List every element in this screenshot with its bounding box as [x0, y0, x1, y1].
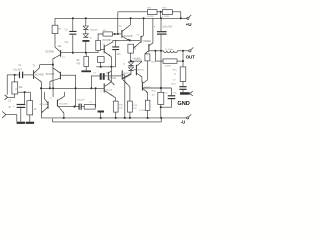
wire T2b emitter drop: [49, 82, 51, 89]
resistor R16: [163, 59, 177, 63]
transistor T1: [33, 65, 42, 83]
node T9 bus base node: [75, 87, 77, 89]
svg-text:BC556B: BC556B: [124, 36, 133, 38]
ground mid: [98, 111, 105, 118]
label 2,2/5W: [139, 110, 146, 112]
capacitor C9: [179, 86, 186, 90]
resistor R17z: [180, 67, 186, 82]
label R3 value: [57, 29, 62, 48]
label C9 value: [171, 84, 177, 86]
node ground rail R15b: [147, 117, 149, 119]
svg-text:BC546B: BC546B: [59, 104, 68, 106]
svg-text:BD911: BD911: [137, 69, 144, 71]
label T3 type: [102, 40, 111, 42]
label R13 value: [119, 104, 124, 109]
label In: [9, 105, 12, 109]
wire diode chain bottom: [85, 42, 87, 53]
node out right: [182, 50, 184, 52]
wire R17z to C9: [182, 81, 184, 86]
label T9b type: [143, 87, 151, 89]
svg-text:100µ 63V: 100µ 63V: [162, 27, 172, 29]
label -U: [181, 120, 185, 125]
inductor L1: [163, 51, 177, 53]
wire C6 bottom: [115, 50, 117, 67]
capacitor C4: [76, 104, 82, 110]
svg-text:GND: GND: [177, 101, 189, 107]
transistor T9: [104, 82, 116, 101]
node T9 bus T1e: [40, 87, 42, 89]
wire R10 bottom: [130, 53, 132, 61]
label R16 value: [164, 66, 171, 68]
label C1: [18, 64, 22, 67]
svg-text:1N4148: 1N4148: [90, 30, 98, 32]
transistor T8: [122, 70, 131, 101]
node ground rail mid: [100, 117, 102, 119]
svg-text:L1 10µH: L1 10µH: [165, 49, 174, 51]
transistor T2d: [57, 92, 65, 118]
wire R16 left: [155, 51, 163, 61]
wire T7 base: [134, 69, 136, 71]
node R10 diodes: [130, 60, 132, 62]
node rail x143.6: [143, 17, 145, 19]
wire input node to R1 bottom: [8, 92, 18, 97]
label T9 type: [105, 89, 112, 91]
diode D2b bar: [82, 40, 89, 42]
wire T2b base: [61, 74, 76, 76]
label D1 1N4148: [90, 30, 98, 32]
node base bus C3: [72, 52, 74, 54]
label T8 type: [123, 73, 130, 75]
label C2 plus: [13, 104, 15, 108]
label R6: [103, 30, 107, 32]
label T1 type: [35, 75, 44, 77]
label C5 value: [106, 72, 110, 74]
wire T9b base bus: [143, 87, 172, 89]
label D2 4x: [90, 38, 93, 40]
label T5 type: [142, 40, 150, 42]
wire zobel vertical: [182, 51, 184, 67]
wire R14 bottom: [160, 104, 162, 118]
wire out left: [150, 50, 164, 52]
svg-text:BD140: BD140: [109, 78, 117, 80]
label OUT: [186, 54, 196, 59]
node VAS bus: [129, 39, 131, 41]
resistor R13: [113, 101, 118, 118]
label C3 value: [65, 42, 70, 44]
label T2c type: [40, 104, 49, 106]
label GND: [177, 101, 189, 107]
label bias 2x2,2W: [132, 58, 140, 60]
label T3: [102, 44, 105, 46]
svg-text:2x2,2W: 2x2,2W: [132, 58, 140, 60]
wire VAS bus: [113, 39, 140, 41]
terminal -U: [187, 114, 192, 119]
wire C5 left: [91, 76, 99, 88]
wire T9 base bus: [41, 87, 104, 89]
label T1: [33, 64, 36, 67]
svg-text:0,1/5W: 0,1/5W: [147, 16, 155, 18]
svg-text:100µ/4V: 100µ/4V: [77, 100, 86, 102]
resistor R9: [96, 40, 101, 50]
wire D3-D4: [130, 66, 132, 67]
wire cascode vertical: [52, 58, 54, 97]
transistor T3: [104, 40, 113, 57]
label R14b value: [133, 105, 138, 110]
terminal OUT: [183, 47, 193, 52]
wire bias to T7: [131, 60, 142, 62]
wire +U top rail: [55, 17, 187, 19]
label C6: [116, 41, 120, 43]
label R2 value: [34, 108, 37, 111]
transistor T4: [121, 18, 130, 40]
label R8: [76, 60, 80, 62]
wire R11h bottom: [100, 62, 102, 67]
resistor R12: [145, 54, 150, 61]
node T2d base: [73, 106, 75, 108]
label T2d type: [59, 104, 68, 106]
label R18 value 0,1/5W: [162, 16, 170, 18]
resistor R15b: [145, 100, 150, 118]
svg-text:BC546B: BC546B: [45, 51, 54, 53]
terminal GND bar: [180, 91, 193, 96]
wire C5 to T6: [105, 75, 108, 77]
node ground rail T8: [124, 117, 126, 119]
svg-text:2,2/5W: 2,2/5W: [139, 110, 146, 112]
wire diode chain top: [85, 18, 87, 26]
capacitor C1: [19, 72, 33, 79]
wire emitter bus: [18, 91, 31, 93]
label C9: [173, 79, 177, 81]
transistor T2a: [53, 47, 61, 59]
capacitor C8: [161, 88, 176, 107]
node rail x161: [160, 17, 162, 19]
resistor R1: [12, 75, 18, 94]
label T4 type: [124, 36, 133, 38]
node R14 C8: [160, 106, 162, 108]
capacitor C6: [112, 46, 119, 50]
wire between emitter resistors: [157, 11, 162, 13]
label T6 type: [109, 78, 117, 80]
wire T3 base: [100, 48, 105, 50]
node rail x130.6: [130, 17, 132, 19]
wire vertical bus left drop: [117, 12, 119, 34]
label T2b type: [46, 74, 55, 76]
label T5: [137, 35, 140, 37]
terminal +U: [183, 15, 191, 20]
node rail C3: [72, 17, 74, 19]
node ground rail R14b: [129, 117, 131, 119]
capacitor C5: [100, 73, 105, 80]
label R7 value: [89, 102, 92, 104]
label R17z: [173, 70, 178, 72]
capacitor C10: [157, 18, 167, 92]
wire R9 bottom: [97, 51, 99, 53]
svg-text:10µ 63V: 10µ 63V: [13, 69, 22, 71]
label R17 value 0,1/5W: [147, 16, 155, 18]
node between R17 R18: [160, 11, 162, 19]
resistor R11h: [97, 57, 104, 63]
wire R8 bottom: [85, 67, 87, 71]
wire T5 collector: [143, 18, 145, 35]
label C8 value: [173, 92, 177, 94]
label Fb: [15, 89, 18, 91]
node mid bus T3e: [110, 66, 112, 68]
capacitor C3: [69, 18, 76, 52]
label T9: [100, 91, 103, 93]
wire input ground: [6, 115, 17, 122]
wire T8 base drop: [121, 75, 125, 118]
node base bus diodes: [85, 52, 87, 54]
label T7 type: [137, 69, 144, 71]
label +U: [186, 22, 193, 27]
wire L1 to out node: [177, 50, 183, 52]
node out top: [160, 50, 162, 52]
label C5: [93, 72, 97, 74]
svg-text:10/5W: 10/5W: [164, 66, 171, 68]
node T9 bus cascode: [52, 87, 54, 89]
wire T1 collector to cascode node: [40, 64, 53, 66]
node ground rail end: [160, 117, 162, 119]
svg-text:OUT: OUT: [186, 54, 196, 59]
wire T2a base bus: [61, 52, 98, 54]
wire mid bus: [96, 66, 115, 68]
wire R6 to T4: [112, 33, 118, 35]
label T4: [119, 26, 122, 28]
wire -U rail: [53, 118, 162, 122]
node T9 bus T2be: [49, 87, 51, 89]
transistor T10: [145, 18, 153, 54]
node base bus x160.8: [160, 87, 162, 89]
label T10 type: [145, 41, 152, 43]
capacitor C2: [17, 92, 26, 122]
label L1: [165, 49, 174, 51]
label C2: [8, 100, 12, 103]
resistor R6: [103, 32, 112, 36]
wire R3 to T2a collector: [54, 34, 56, 48]
wire R16 right: [177, 60, 183, 62]
svg-text:1k2: 1k2: [57, 45, 62, 48]
label D3 2x: [123, 64, 126, 66]
wire input top: [7, 74, 19, 76]
label C8: [165, 93, 169, 95]
label C3: [65, 30, 69, 32]
wire ground rail: [41, 117, 187, 119]
label R17z value: [174, 74, 177, 76]
label D3 type: [134, 59, 142, 61]
diode D2: [83, 34, 88, 38]
diode D4: [128, 67, 133, 71]
wire R9 top: [98, 34, 103, 40]
resistor R10: [128, 44, 133, 53]
wire C9 to GND: [182, 90, 184, 92]
wire T2d base: [58, 106, 76, 108]
label C10 plus: [154, 25, 156, 29]
label C4 value: [77, 100, 86, 102]
node zobel top: [182, 60, 184, 62]
transistor T7: [136, 61, 142, 82]
label R18: [162, 8, 167, 10]
wire base node vertical: [75, 75, 77, 107]
label R10 value: [134, 48, 137, 50]
label R17: [147, 8, 152, 10]
wire R7 to bus: [94, 88, 96, 107]
node R6 out: [114, 33, 116, 35]
svg-text:+U: +U: [186, 22, 193, 27]
node bus drop: [117, 33, 119, 35]
transistor T9b output: [142, 80, 148, 101]
wire C6 chain: [115, 40, 117, 46]
svg-text:BD911: BD911: [145, 41, 152, 43]
svg-text:BD140: BD140: [105, 89, 112, 91]
svg-text:BC546B: BC546B: [35, 75, 44, 77]
ground R2: [26, 122, 34, 124]
resistor R17: [147, 10, 157, 15]
ground R8: [81, 70, 91, 72]
transistor T6: [108, 71, 115, 85]
svg-text:In: In: [9, 105, 12, 109]
label T2a type: [45, 51, 54, 53]
label T2a: [62, 57, 65, 59]
node C1/R1: [14, 74, 16, 76]
diode D1: [83, 26, 88, 30]
transistor T2b: [50, 68, 61, 82]
label T2c: [49, 98, 52, 100]
node rail diodes: [85, 17, 87, 19]
wire T3 emitter vertical: [110, 57, 112, 82]
wire T1 emitter drop: [40, 82, 42, 118]
label C6 value: [117, 54, 122, 56]
resistor R18: [162, 10, 172, 15]
label R16: [151, 62, 156, 64]
node rail x180.8: [180, 17, 182, 19]
resistor R14b: [128, 101, 133, 118]
wire upper emitter-resistor bus: [118, 11, 148, 13]
node cascode: [52, 64, 54, 66]
wire T4 base: [118, 33, 121, 35]
label R8 value: [76, 63, 81, 65]
wire R12 to T9c: [147, 61, 149, 80]
resistor R2: [27, 92, 33, 122]
diode D3: [128, 62, 133, 66]
node mid bus R11h: [100, 66, 102, 68]
node C10 line fb: [160, 87, 162, 89]
node ground rail R13: [115, 117, 117, 119]
terminal input signal: [5, 95, 8, 100]
svg-text:BC546B: BC546B: [40, 104, 49, 106]
label T2d: [60, 98, 63, 100]
terminal input ground: [2, 111, 6, 117]
transistor T2c: [41, 92, 48, 113]
label R14: [152, 91, 157, 93]
wire D4 bottom: [123, 71, 131, 79]
node ground rail T2d: [63, 117, 65, 119]
svg-text:47µ: 47µ: [65, 42, 70, 44]
label R1 value: [19, 86, 24, 89]
svg-text:100n: 100n: [171, 84, 177, 86]
svg-text:BC546B: BC546B: [46, 74, 55, 76]
resistor R14: [158, 92, 164, 104]
svg-text:BC546B: BC546B: [102, 40, 111, 42]
label C10 value: [162, 27, 172, 29]
wire input vertical: [6, 75, 8, 95]
node C5 left bus: [90, 87, 92, 89]
wire T6 base bus behind: [109, 75, 121, 77]
label R14 value: [152, 95, 156, 97]
label C1 value 10u 63V: [13, 69, 22, 71]
resistor R3: [52, 18, 58, 33]
wire D1-D2: [85, 30, 87, 34]
node T9 bus feedback: [95, 87, 97, 89]
resistor R7: [82, 105, 95, 110]
transistor T5: [133, 35, 143, 48]
node emitter bus C2: [24, 91, 26, 93]
node out vert155: [154, 50, 156, 52]
ground C2: [17, 122, 26, 124]
svg-text:0,1/5W: 0,1/5W: [162, 16, 170, 18]
resistor R8: [84, 53, 89, 67]
wire R18 to rail: [172, 12, 180, 18]
svg-text:-U: -U: [181, 120, 185, 125]
